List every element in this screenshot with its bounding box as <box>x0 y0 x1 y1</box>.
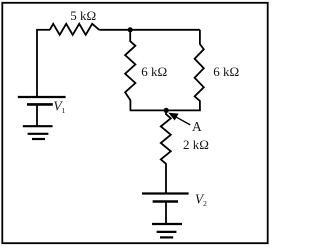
ground V2 line 2 <box>157 231 177 233</box>
svg-text:6 kΩ: 6 kΩ <box>141 64 167 79</box>
battery V1 short plate <box>27 103 53 106</box>
svg-text:2 kΩ: 2 kΩ <box>183 137 209 152</box>
svg-text:6 kΩ: 6 kΩ <box>213 64 239 79</box>
ground V1 line 1 <box>23 125 53 127</box>
ground V1 line 3 <box>32 138 45 140</box>
svg-text:5 kΩ: 5 kΩ <box>70 8 96 23</box>
wire V1 battery to ground <box>36 104 38 126</box>
resistor 2 kohm (with leads) <box>161 110 171 193</box>
battery V2 long plate <box>142 192 189 194</box>
battery V1 long plate <box>18 96 66 98</box>
wire top horizontal left lead <box>36 29 50 31</box>
resistor 6 kohm right (with leads) <box>195 30 204 111</box>
wire top horizontal right <box>99 29 200 31</box>
ground V2 line 1 <box>152 223 182 225</box>
wire bottom of bridge <box>130 109 201 111</box>
node A junction dot <box>164 108 169 113</box>
wire V2 battery to ground <box>165 202 167 225</box>
svg-text:A: A <box>192 119 202 134</box>
junction dot top node <box>128 27 133 32</box>
resistor 5 kohm zigzag <box>50 24 99 35</box>
ground V2 line 3 <box>160 236 173 238</box>
ground V1 line 2 <box>28 133 49 135</box>
arrow pointing to node A <box>168 113 190 125</box>
wire left vertical (V1 to top-left corner) <box>36 30 38 97</box>
battery V2 short plate <box>153 200 178 203</box>
resistor 6 kohm left (with leads) <box>125 30 135 111</box>
